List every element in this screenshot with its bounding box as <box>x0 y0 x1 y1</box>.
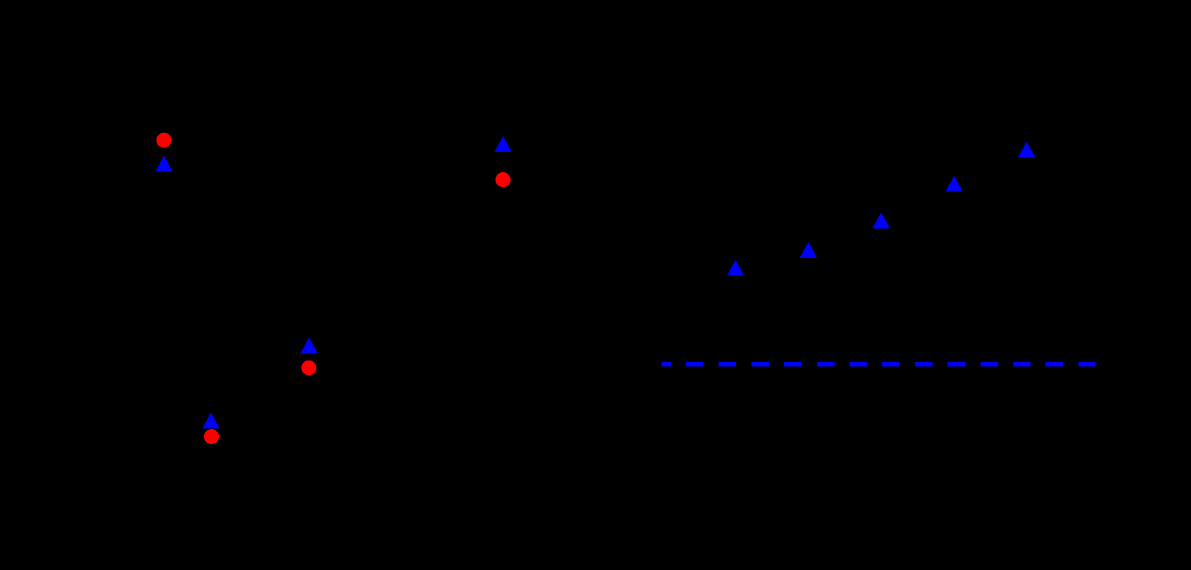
left subplot: red circle marker pair 1 <box>156 133 171 148</box>
right subplot: blue triangle marker 2 <box>800 242 817 258</box>
left subplot: red circle marker pair 3 <box>301 360 316 375</box>
right subplot: blue triangle marker 5 <box>1018 142 1035 158</box>
right subplot: blue dashed horizontal reference line <box>661 362 1095 367</box>
left subplot: red circle marker pair 4 <box>496 172 511 187</box>
left subplot: red circle marker pair 2 <box>204 429 219 444</box>
right subplot: blue triangle marker 4 <box>946 176 963 192</box>
right subplot: blue triangle marker 1 <box>727 260 744 276</box>
left subplot: blue triangle marker pair 4 <box>494 136 511 152</box>
left subplot: blue triangle marker pair 3 <box>300 338 317 354</box>
right subplot: blue triangle marker 3 <box>873 212 890 228</box>
left subplot: blue triangle marker pair 2 <box>202 413 219 429</box>
left subplot: blue triangle marker pair 1 <box>155 156 172 172</box>
